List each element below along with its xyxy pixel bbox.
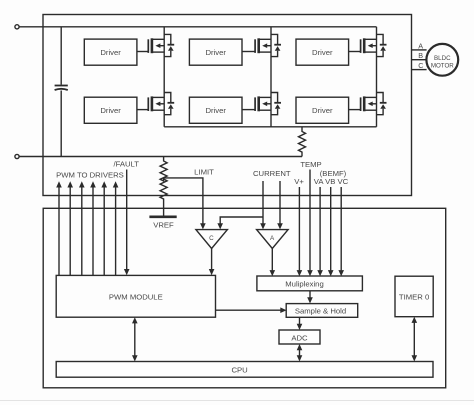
svg-text:Driver: Driver	[312, 48, 333, 57]
svg-text:/FAULT: /FAULT	[113, 160, 139, 169]
driver U5	[296, 39, 349, 65]
svg-text:B: B	[418, 51, 423, 60]
motor M1	[426, 44, 458, 76]
CPU	[56, 362, 433, 378]
wire PWM1	[56, 181, 62, 275]
driver U2	[84, 97, 137, 123]
wire PWM5	[101, 181, 107, 275]
op-amp A	[257, 230, 289, 249]
wire PWM to CPU	[132, 317, 138, 361]
bottom controller outer box	[43, 208, 446, 387]
terminal V+	[15, 25, 19, 29]
svg-text:TIMER 0: TIMER 0	[399, 293, 429, 302]
driver U4	[189, 97, 242, 123]
wire PWM6	[113, 181, 119, 275]
svg-text:Muliplexing: Muliplexing	[285, 279, 323, 288]
wire mux to S/H	[307, 291, 313, 304]
ground VREF	[149, 217, 176, 230]
wire phase A	[163, 27, 165, 127]
svg-text:C: C	[209, 235, 214, 242]
wire CURRENT1	[217, 181, 265, 229]
svg-text:VA VB VC: VA VB VC	[314, 177, 349, 186]
svg-text:C: C	[418, 61, 423, 70]
wire gate Q5	[349, 51, 361, 53]
wire PWM3	[79, 181, 85, 275]
driver U1	[84, 39, 137, 65]
resistor R3	[160, 178, 167, 216]
op-amp C	[196, 230, 228, 249]
wire /FAULT	[124, 170, 130, 276]
wire PWM to S/H	[216, 307, 287, 313]
sample and hold	[286, 304, 358, 318]
driver U3	[189, 39, 242, 65]
wire TEMP	[307, 170, 313, 277]
wire V+ rail	[19, 26, 376, 28]
node A	[412, 41, 427, 50]
wire CURRENT2	[277, 181, 283, 229]
transistor Q6	[361, 93, 387, 115]
svg-text:MOTOR: MOTOR	[431, 63, 454, 70]
wire V-	[19, 156, 302, 158]
wire phase B	[270, 27, 272, 127]
wire gate Q6	[349, 109, 361, 111]
svg-text:Sample & Hold: Sample & Hold	[295, 306, 346, 315]
svg-text:Driver: Driver	[205, 106, 226, 115]
wire ground rail	[164, 126, 376, 128]
node B	[412, 51, 427, 60]
power stage outer box	[43, 15, 412, 196]
terminal V-	[15, 154, 19, 158]
wire PWM4	[90, 181, 96, 275]
wire C out	[209, 249, 215, 276]
svg-text:LIMIT: LIMIT	[194, 168, 214, 177]
driver U6	[296, 97, 349, 123]
svg-text:Driver: Driver	[100, 48, 121, 57]
wire phase C	[376, 27, 378, 127]
wire gate Q2	[137, 109, 148, 111]
timer 0	[395, 276, 433, 317]
PWM MODULE	[56, 275, 215, 317]
svg-text:TEMP: TEMP	[300, 160, 321, 169]
transistor Q5	[361, 34, 387, 56]
svg-text:CPU: CPU	[231, 365, 247, 374]
svg-text:PWM MODULE: PWM MODULE	[109, 293, 163, 302]
wire gate Q4	[242, 109, 255, 111]
wire ADC to CPU	[297, 344, 303, 362]
wire VC	[338, 187, 344, 276]
svg-text:V+: V+	[294, 177, 304, 186]
wire VB	[328, 187, 334, 276]
svg-text:VREF: VREF	[153, 221, 174, 230]
capacitor C1	[55, 27, 68, 157]
svg-text:Driver: Driver	[312, 106, 333, 115]
node C	[412, 61, 427, 70]
svg-text:CURRENT: CURRENT	[253, 169, 291, 178]
svg-text:PWM TO DRIVERS: PWM TO DRIVERS	[56, 171, 124, 180]
transistor Q3	[255, 34, 281, 56]
transistor Q2	[148, 93, 174, 115]
resistor R1 sense	[299, 127, 306, 157]
svg-text:Driver: Driver	[100, 106, 121, 115]
svg-text:Driver: Driver	[205, 48, 226, 57]
svg-text:ADC: ADC	[291, 333, 308, 342]
wire LIMIT	[164, 178, 206, 230]
page border shadow	[0, 400, 474, 402]
wire gate Q3	[242, 51, 255, 53]
ADC	[279, 330, 320, 344]
transistor Q4	[255, 93, 281, 115]
wire gate Q1	[137, 51, 148, 53]
svg-text:A: A	[418, 41, 423, 50]
svg-text:BLDC: BLDC	[434, 55, 451, 62]
wire VA	[317, 187, 323, 276]
resistor R2	[160, 157, 167, 182]
wire PWM2	[67, 181, 73, 275]
wire S/H to ADC	[297, 317, 303, 330]
transistor Q1	[148, 34, 174, 56]
multiplexer	[257, 276, 363, 291]
wire V+	[297, 187, 303, 276]
wire TIMER to CPU	[412, 317, 418, 362]
wire A out	[270, 249, 276, 277]
